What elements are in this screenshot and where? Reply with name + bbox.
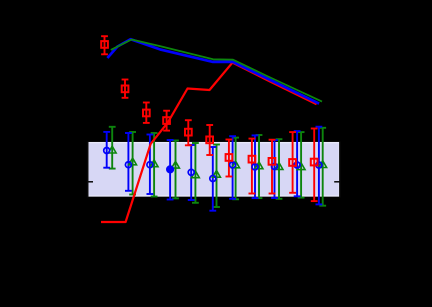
blue circle point 4 error bar [169, 140, 171, 200]
red square point 3 error bar [145, 103, 147, 123]
right axis spine [339, 142, 341, 198]
blue circle marker 8 [252, 164, 258, 170]
blue circle point 8 error bar [254, 135, 256, 198]
red square point 1 error bar [104, 36, 106, 54]
green triangle marker 7 [232, 161, 240, 168]
green triangle marker 6 [213, 170, 221, 177]
green triangle marker 10 [297, 163, 305, 170]
blue circle point 1 error bar [106, 132, 108, 168]
blue circle marker 2 [125, 162, 131, 168]
green triangle point 7 error bar [235, 138, 237, 200]
blue circle marker 5 [188, 169, 194, 175]
green triangle point 2 error bar [132, 132, 134, 195]
green triangle point 8 error bar [258, 135, 260, 198]
blue circle marker 1 [104, 148, 110, 154]
blue circle point 2 error bar [127, 133, 129, 191]
red square point 8 error bar [251, 139, 253, 194]
red square marker 7 [226, 154, 233, 161]
right y-axis tick [334, 181, 340, 183]
blue circle marker 6 [210, 176, 216, 182]
blue circle point 11 error bar [318, 127, 320, 205]
red square marker 3 [143, 110, 150, 117]
green triangle marker 8 [255, 162, 263, 169]
green triangle point 11 error bar [322, 128, 324, 206]
green model curve [111, 40, 322, 102]
green triangle point 3 error bar [153, 133, 155, 197]
red square marker 1 [101, 41, 108, 48]
red square marker 2 [122, 86, 129, 93]
green triangle point 10 error bar [300, 132, 302, 198]
red square point 11 error bar [313, 129, 315, 202]
green triangle point 9 error bar [278, 139, 280, 199]
red square point 4 error bar [166, 111, 168, 131]
red square point 2 error bar [124, 80, 126, 98]
red model curve [101, 63, 317, 222]
green triangle marker 3 [150, 160, 158, 167]
blue circle point 6 error bar [212, 147, 214, 211]
red square marker 6 [206, 137, 213, 144]
red square point 10 error bar [292, 132, 294, 193]
green triangle point 6 error bar [216, 145, 218, 208]
blue circle marker 3 [147, 162, 153, 168]
blue circle marker 11 [316, 162, 322, 168]
green triangle marker 4 [172, 161, 180, 168]
blue circle marker 9 [272, 164, 278, 170]
red square point 7 error bar [228, 140, 230, 177]
red square point 5 error bar [187, 120, 189, 145]
green triangle point 1 error bar [111, 127, 113, 169]
green triangle marker 5 [192, 171, 200, 178]
red square marker 11 [311, 159, 318, 166]
red square marker 4 [163, 117, 170, 124]
green triangle point 4 error bar [175, 141, 177, 199]
blue circle marker 10 [294, 162, 300, 168]
red square marker 9 [269, 158, 276, 165]
red square point 9 error bar [271, 140, 273, 194]
red square point 6 error bar [209, 125, 211, 155]
green triangle marker 9 [275, 163, 283, 170]
green triangle point 5 error bar [194, 143, 196, 203]
blue circle point 7 error bar [232, 136, 234, 199]
green triangle marker 2 [129, 158, 137, 165]
blue circle marker 7 [230, 162, 236, 168]
blue circle point 5 error bar [190, 145, 192, 200]
red square marker 5 [185, 129, 192, 136]
left y-axis tick [87, 181, 93, 183]
left axis spine [87, 142, 89, 198]
red square marker 8 [249, 156, 256, 163]
blue circle point 10 error bar [296, 131, 298, 196]
blue circle point 9 error bar [274, 140, 276, 198]
uncertainty band [88, 143, 339, 196]
blue circle marker 4 [166, 165, 174, 173]
blue model curve [107, 39, 319, 103]
green triangle marker 1 [108, 146, 116, 153]
red square marker 10 [289, 159, 296, 166]
blue circle point 3 error bar [149, 135, 151, 195]
green triangle marker 11 [319, 161, 327, 168]
